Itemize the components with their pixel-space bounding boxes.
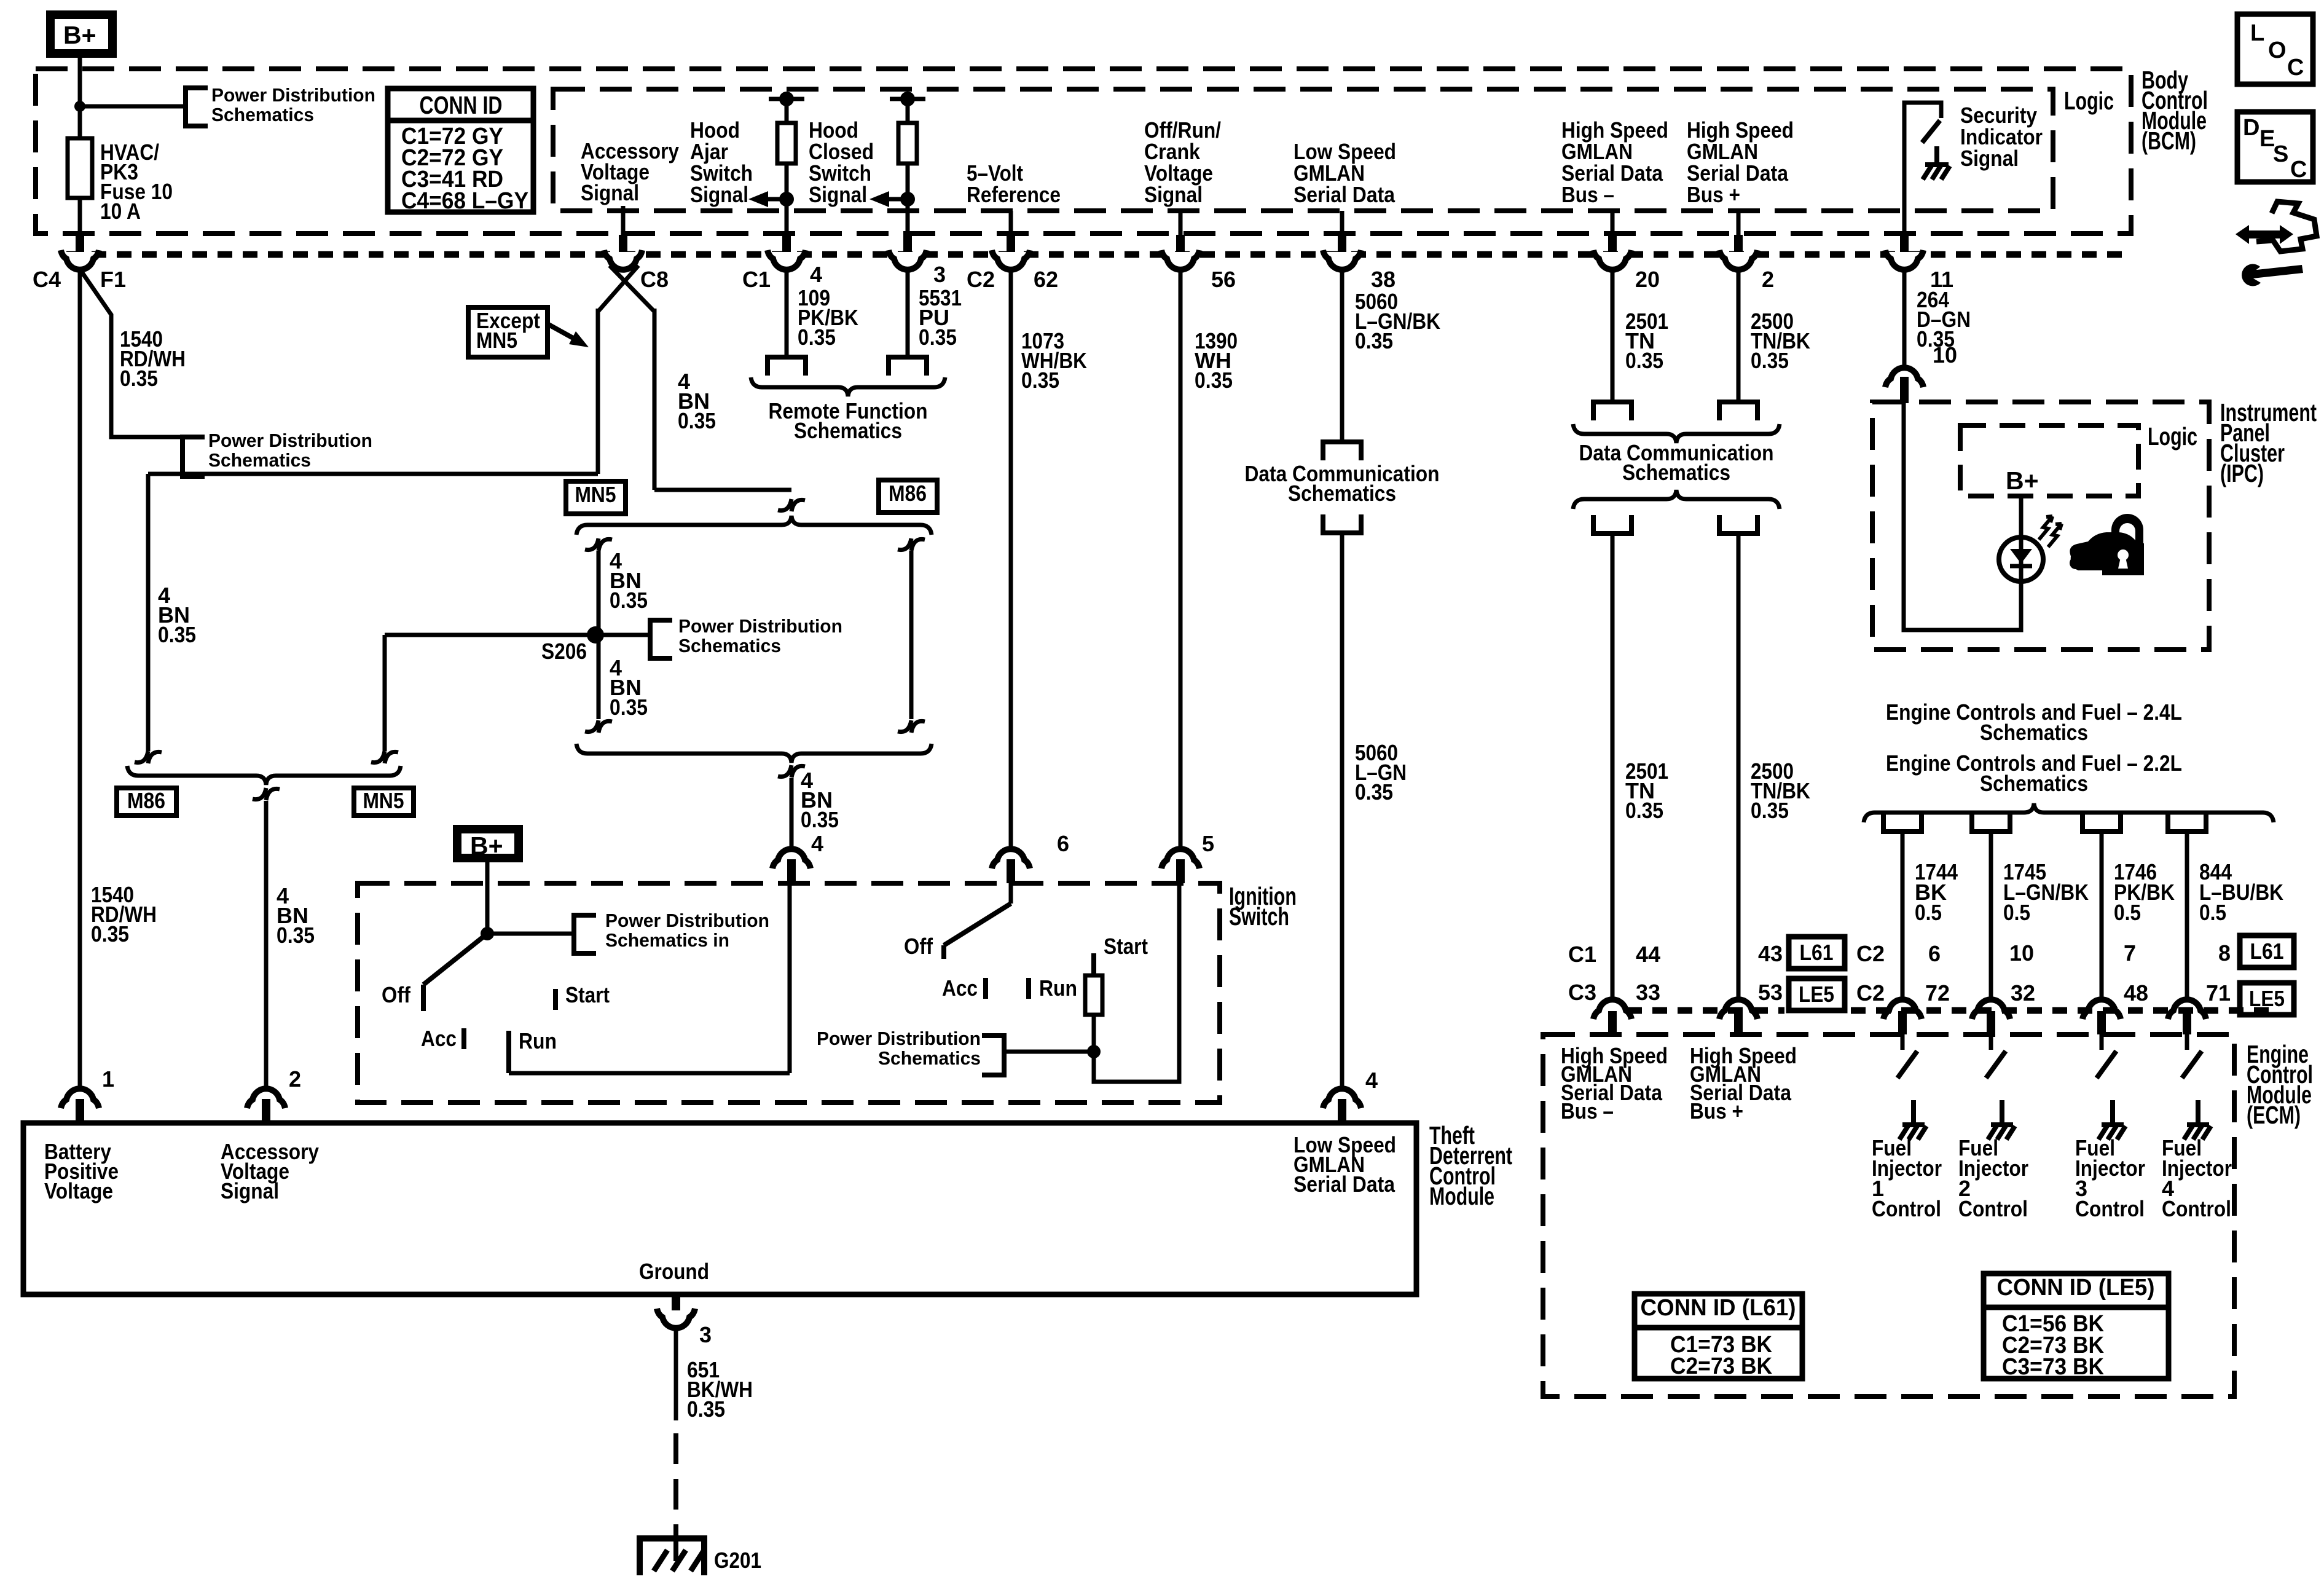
svg-text:Bus –: Bus – — [1561, 1098, 1614, 1124]
svg-text:44: 44 — [1636, 942, 1660, 967]
svg-text:0.35: 0.35 — [610, 695, 648, 720]
svg-text:0.35: 0.35 — [1751, 348, 1789, 373]
svg-text:B+: B+ — [470, 832, 503, 860]
svg-text:0.35: 0.35 — [158, 622, 196, 647]
svg-text:Run: Run — [1039, 975, 1077, 1001]
svg-text:6: 6 — [1057, 831, 1069, 856]
svg-text:Switch: Switch — [1229, 902, 1289, 931]
svg-text:0.35: 0.35 — [1625, 348, 1663, 373]
svg-text:L: L — [2250, 20, 2264, 46]
svg-text:(BCM): (BCM) — [2141, 127, 2196, 155]
svg-text:Serial Data: Serial Data — [1294, 1171, 1396, 1197]
svg-text:B+: B+ — [2006, 467, 2039, 495]
svg-text:(ECM): (ECM) — [2247, 1101, 2301, 1129]
svg-text:56: 56 — [1211, 267, 1236, 292]
svg-text:38: 38 — [1371, 267, 1396, 292]
svg-text:7: 7 — [2124, 940, 2136, 966]
svg-text:O: O — [2268, 37, 2287, 63]
svg-text:Schematics: Schematics — [678, 635, 781, 656]
svg-text:C4=68 L–GY: C4=68 L–GY — [401, 188, 528, 214]
svg-text:Acc: Acc — [942, 975, 978, 1001]
svg-text:0.35: 0.35 — [1021, 368, 1059, 393]
svg-text:0.35: 0.35 — [1355, 779, 1393, 805]
svg-text:Run: Run — [519, 1028, 557, 1053]
svg-text:C2: C2 — [967, 267, 995, 292]
svg-text:C8: C8 — [640, 267, 669, 292]
svg-text:0.35: 0.35 — [1625, 798, 1663, 823]
svg-text:0.35: 0.35 — [801, 807, 839, 832]
svg-text:Schematics: Schematics — [1288, 481, 1396, 506]
svg-text:C1: C1 — [1568, 942, 1596, 967]
svg-text:B+: B+ — [63, 21, 96, 49]
svg-text:Voltage: Voltage — [44, 1178, 113, 1203]
svg-text:0.35: 0.35 — [798, 325, 836, 350]
svg-text:71: 71 — [2206, 980, 2231, 1006]
svg-text:Signal: Signal — [1960, 146, 2019, 171]
svg-text:D: D — [2243, 115, 2259, 141]
svg-text:Control: Control — [1872, 1196, 1941, 1221]
svg-text:Schematics in: Schematics in — [605, 929, 729, 951]
svg-text:Off: Off — [382, 982, 411, 1007]
svg-text:G201: G201 — [714, 1548, 761, 1573]
svg-text:10: 10 — [1933, 342, 1957, 368]
svg-text:Acc: Acc — [421, 1026, 457, 1051]
svg-text:Control: Control — [2075, 1196, 2145, 1221]
svg-text:10: 10 — [2009, 940, 2034, 966]
svg-text:0.35: 0.35 — [687, 1396, 725, 1422]
svg-text:C1: C1 — [742, 267, 771, 292]
svg-text:Power Distribution: Power Distribution — [605, 910, 769, 931]
svg-text:Power Distribution: Power Distribution — [678, 615, 842, 637]
svg-text:Schematics: Schematics — [208, 449, 311, 471]
svg-text:32: 32 — [2011, 980, 2035, 1006]
svg-text:0.35: 0.35 — [1195, 368, 1233, 393]
svg-text:4: 4 — [1365, 1068, 1378, 1093]
svg-text:MN5: MN5 — [363, 788, 404, 813]
svg-text:CONN ID: CONN ID — [420, 91, 503, 119]
svg-text:Ground: Ground — [639, 1259, 709, 1284]
svg-text:S206: S206 — [541, 639, 587, 664]
svg-text:0.35: 0.35 — [610, 588, 648, 613]
svg-text:0.35: 0.35 — [919, 325, 957, 350]
svg-text:33: 33 — [1636, 980, 1660, 1005]
svg-text:C2=73 BK: C2=73 BK — [1670, 1353, 1773, 1379]
svg-text:L61: L61 — [2250, 939, 2284, 964]
svg-text:0.35: 0.35 — [1355, 328, 1393, 353]
svg-text:Reference: Reference — [967, 182, 1061, 207]
svg-text:CONN ID (L61): CONN ID (L61) — [1641, 1295, 1796, 1321]
svg-text:Bus –: Bus – — [1561, 182, 1614, 207]
svg-text:4: 4 — [810, 262, 822, 287]
svg-text:Bus +: Bus + — [1690, 1098, 1743, 1124]
svg-text:62: 62 — [1034, 267, 1058, 292]
svg-text:Schematics: Schematics — [1980, 720, 2088, 745]
svg-text:Signal: Signal — [809, 182, 867, 207]
svg-text:8: 8 — [2218, 940, 2231, 966]
svg-text:Signal: Signal — [581, 180, 639, 205]
svg-text:C2: C2 — [1856, 980, 1885, 1006]
svg-text:MN5: MN5 — [476, 328, 517, 353]
svg-text:Off: Off — [904, 934, 933, 959]
svg-text:0.35: 0.35 — [120, 366, 158, 391]
svg-text:Power Distribution: Power Distribution — [208, 430, 372, 451]
svg-text:C: C — [2290, 157, 2307, 183]
svg-text:Signal: Signal — [1144, 182, 1203, 207]
svg-text:Control: Control — [1958, 1196, 2028, 1221]
svg-text:2: 2 — [289, 1066, 301, 1092]
svg-text:0.35: 0.35 — [277, 923, 315, 948]
svg-text:Schematics: Schematics — [211, 104, 314, 125]
svg-text:Start: Start — [1104, 934, 1148, 959]
svg-text:C3: C3 — [1568, 980, 1596, 1005]
svg-text:1: 1 — [102, 1066, 114, 1092]
svg-text:72: 72 — [1925, 980, 1950, 1006]
svg-text:0.35: 0.35 — [1751, 798, 1789, 823]
svg-text:3: 3 — [933, 262, 946, 287]
svg-text:Signal: Signal — [690, 182, 748, 207]
svg-text:0.5: 0.5 — [1915, 900, 1942, 925]
svg-text:Logic: Logic — [2148, 422, 2197, 451]
svg-text:10 A: 10 A — [100, 199, 141, 224]
svg-text:Schematics: Schematics — [878, 1047, 981, 1069]
svg-text:S: S — [2273, 141, 2288, 167]
svg-text:6: 6 — [1928, 941, 1941, 966]
svg-text:3: 3 — [699, 1322, 712, 1347]
svg-text:0.35: 0.35 — [678, 408, 716, 433]
svg-text:Schematics: Schematics — [794, 418, 902, 443]
svg-text:2: 2 — [1762, 267, 1774, 292]
svg-text:Start: Start — [565, 982, 610, 1007]
svg-text:0.5: 0.5 — [2114, 900, 2141, 925]
svg-text:Power Distribution: Power Distribution — [211, 84, 375, 106]
svg-text:0.5: 0.5 — [2003, 900, 2030, 925]
svg-text:48: 48 — [2124, 980, 2148, 1006]
svg-text:0.35: 0.35 — [91, 921, 129, 947]
svg-text:Control: Control — [2162, 1196, 2231, 1221]
svg-text:0.5: 0.5 — [2199, 900, 2226, 925]
svg-text:F1: F1 — [100, 267, 126, 292]
svg-text:Bus +: Bus + — [1687, 182, 1740, 207]
svg-text:C: C — [2287, 55, 2304, 81]
svg-text:LE5: LE5 — [1799, 982, 1834, 1007]
svg-text:L61: L61 — [1800, 940, 1834, 965]
svg-text:Schematics: Schematics — [1980, 771, 2088, 796]
svg-text:C2: C2 — [1856, 941, 1885, 966]
svg-text:CONN ID (LE5): CONN ID (LE5) — [1997, 1275, 2155, 1301]
svg-text:53: 53 — [1758, 980, 1783, 1005]
svg-text:5: 5 — [1202, 831, 1214, 856]
svg-text:Logic: Logic — [2064, 87, 2114, 115]
svg-text:Power Distribution: Power Distribution — [817, 1028, 981, 1049]
svg-text:Module: Module — [1429, 1182, 1494, 1210]
svg-text:(IPC): (IPC) — [2220, 459, 2264, 487]
svg-text:C4: C4 — [33, 267, 61, 292]
svg-text:C3=73 BK: C3=73 BK — [2002, 1354, 2105, 1380]
svg-text:4: 4 — [811, 831, 823, 856]
svg-text:M86: M86 — [127, 788, 165, 813]
svg-text:Schematics: Schematics — [1622, 460, 1730, 485]
svg-text:MN5: MN5 — [575, 482, 616, 507]
svg-text:Serial Data: Serial Data — [1294, 182, 1396, 207]
svg-text:Signal: Signal — [221, 1178, 279, 1203]
svg-text:M86: M86 — [889, 481, 927, 506]
svg-text:20: 20 — [1635, 267, 1660, 292]
svg-text:43: 43 — [1758, 941, 1783, 966]
